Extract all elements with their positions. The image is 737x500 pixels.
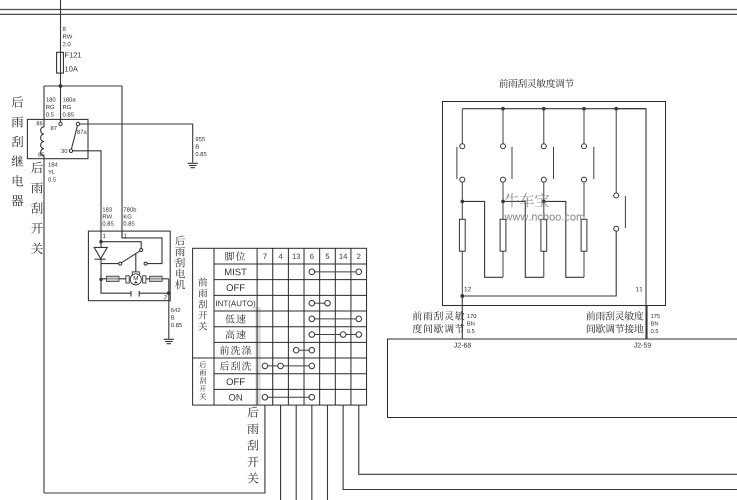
bus junction dot 3 — [582, 107, 586, 111]
row label MIST — [225, 269, 247, 276]
right choke — [150, 276, 163, 281]
sens switch 1 — [457, 109, 465, 202]
wire 184: coil 85 down — [43, 159, 45, 493]
title front wiper sensitivity — [499, 79, 574, 88]
sens switch 2 — [501, 109, 513, 202]
sens switch 5 — [614, 109, 626, 232]
table header 脚位 — [225, 252, 245, 261]
relay pin label 87 — [51, 126, 57, 130]
wire pin5 down — [326, 405, 328, 500]
motor pin 1 label (780b) — [124, 234, 127, 238]
row label 高速 — [226, 330, 246, 339]
row label INT(AUTO) — [216, 300, 255, 307]
power bus line 1 — [0, 9, 737, 11]
row label OFF 2 — [227, 378, 245, 385]
resistor chain jog 2 — [503, 201, 544, 277]
wire label 183 RW 0.85 — [103, 207, 114, 225]
label rear wiper switch (below) — [247, 407, 258, 484]
ECU tick J2-59 — [644, 338, 650, 340]
resistor chain jog 1 — [462, 201, 503, 277]
top bus wire — [462, 108, 646, 110]
label front sens adj — [413, 311, 465, 333]
watermark url — [505, 213, 585, 221]
wire label 175 BN 0.5 — [651, 314, 660, 333]
label rear wiper motor — [175, 236, 185, 290]
label front sens gnd — [586, 311, 643, 333]
watermark niuchebao — [505, 193, 549, 207]
junction dot sw2 bottom — [501, 200, 505, 204]
resistor chain jog 3 — [544, 201, 584, 277]
wire pin4 down — [280, 405, 282, 500]
bus junction dot 4 — [614, 107, 618, 111]
wire 780b down to motor — [121, 86, 123, 238]
pivot tap wire — [101, 263, 119, 265]
wire label 184 YL 0.5 — [48, 162, 58, 181]
relay switch arm — [71, 126, 77, 149]
diode — [94, 242, 107, 294]
power bus line 2 — [0, 13, 737, 15]
ECU pin label J2-59 — [634, 343, 651, 348]
relay pin label 86 — [37, 121, 43, 125]
pin header numbers — [263, 254, 360, 259]
wire col5 to pin12 rail — [464, 231, 616, 296]
junction dot motor right — [167, 291, 171, 295]
label rear wiper relay — [12, 96, 24, 206]
rear wiper motor box — [88, 231, 170, 301]
bus junction dot 2 — [542, 107, 546, 111]
junction dot sw1 bottom — [461, 200, 465, 204]
switch table grid — [193, 248, 367, 405]
relay coil — [41, 119, 44, 158]
wire label 780b KG 0.85 — [124, 207, 137, 225]
pin tick 11 — [643, 305, 649, 307]
sensitivity adj box — [443, 102, 666, 306]
motor pin 1 label (183) — [103, 234, 106, 238]
park switch right contact — [144, 262, 147, 265]
contacts MIST — [309, 269, 362, 275]
wire bus to pin 11 — [616, 109, 646, 339]
contacts 后刮洗 — [262, 363, 315, 369]
motor M1 rear wiper motor — [126, 272, 146, 285]
label front wiper switch — [198, 278, 207, 331]
junction dot sw3 bottom — [542, 200, 546, 204]
relay K1 rear wiper relay box — [27, 119, 88, 158]
row label OFF — [227, 284, 245, 291]
relay pin label 30 — [61, 149, 67, 153]
resistor R1 — [459, 201, 465, 296]
ECU tick J2-68 — [460, 338, 466, 340]
ECU box — [388, 339, 737, 418]
label rear wiper switch (left) — [31, 162, 43, 254]
relay contact 30 — [69, 149, 72, 152]
motor pin 2 label — [164, 295, 167, 299]
wire: fuse node horizontal — [44, 85, 122, 87]
contacts 低速 — [309, 316, 362, 322]
pin 12 junction dot — [460, 294, 464, 298]
wire dot to left choke — [101, 278, 169, 280]
row label ON — [229, 394, 242, 401]
junction dot diode top — [99, 240, 102, 243]
wire label 180a RG 0.85 — [63, 97, 76, 116]
wire to relay contact 87 — [60, 86, 62, 122]
wire pin13 down — [295, 405, 297, 500]
ground symbol (955) — [188, 163, 198, 167]
bottom wire with capacitor — [101, 279, 169, 296]
relay contact 87a — [76, 122, 79, 125]
contacts ON — [262, 394, 315, 400]
wire label 180 RG 0.5 — [46, 97, 55, 116]
fuse value labels — [65, 52, 81, 71]
pin label 12 — [465, 287, 471, 292]
row label 后刮洗 — [220, 361, 251, 370]
resistor R3 — [541, 201, 547, 277]
wire right choke down — [168, 279, 170, 293]
wire label 955 B 0.85 — [196, 137, 207, 156]
junction dot motor left — [99, 278, 102, 281]
wire pin7 loop to relay — [44, 405, 265, 493]
resistor R2 — [500, 201, 506, 277]
wire jog to upper contact — [101, 242, 141, 249]
junction node under fuse — [59, 84, 63, 88]
park switch upper contact — [140, 249, 143, 252]
scan artifact band — [255, 307, 272, 405]
relay pin label 87a — [77, 130, 86, 134]
relay pin label 85 — [38, 153, 44, 157]
wire label 170 BN 0.5 — [467, 314, 476, 333]
wire label 8 RW 2.0 — [63, 27, 73, 47]
sens switch 3 — [541, 109, 553, 202]
ground symbol (642) — [164, 339, 174, 343]
pin tick 12 — [460, 305, 466, 307]
contacts INT(AUTO) — [309, 300, 330, 306]
contacts 高速 — [309, 332, 362, 338]
wire 955: 87a to ground — [80, 124, 193, 163]
row label 低速 — [225, 314, 245, 323]
wire pin14 right — [343, 405, 737, 489]
wire: feed to fuse F121 — [60, 0, 62, 86]
relay contact 87 — [59, 122, 62, 125]
wire pin2 right — [359, 405, 737, 474]
wire: park switch feed jog — [122, 231, 162, 264]
fuse F121 10A — [57, 52, 64, 73]
wire to relay coil pin 86 — [43, 86, 45, 120]
wire label 642 B 0.85 — [171, 308, 182, 327]
park switch arm — [122, 251, 140, 263]
bus junction dot 1 — [501, 107, 505, 111]
arm link to motor — [135, 253, 137, 272]
contacts 前洗涤 — [293, 347, 314, 353]
left choke — [106, 276, 119, 281]
sens switch 4 — [582, 109, 594, 220]
wire pin6 down — [311, 405, 313, 500]
wire 175 pin11 down — [646, 306, 648, 340]
ECU pin label J2-68 — [454, 343, 471, 348]
wire 642 to ground — [168, 293, 170, 339]
resistor R4 — [581, 219, 587, 277]
pin label 11 — [636, 287, 642, 291]
wire 170 pin12 down — [461, 296, 463, 339]
wire 183: contact 30 to motor — [73, 151, 101, 242]
row label 前洗涤 — [220, 346, 251, 355]
park switch pivot contact — [119, 262, 122, 265]
label rear wash switch — [199, 361, 206, 400]
